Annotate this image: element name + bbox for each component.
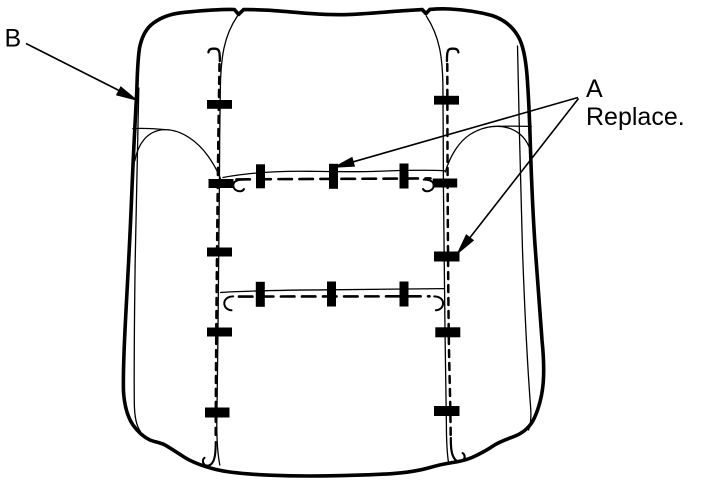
svg-text:B: B [5,24,22,52]
clip A right seam 3 [434,252,460,262]
right shoulder tangent line [498,125,532,127]
upper row right hook [423,180,434,192]
clip A lower row 1 [256,282,265,307]
upper horizontal tie-down dashed line [237,178,431,179]
lower row right hook [434,296,443,310]
lower horizontal seam line [221,289,444,293]
upper row left hook [233,180,244,192]
lower row left hook [224,296,233,310]
clip A left seam 1 [207,100,232,109]
clip A lower row 3 [400,282,409,307]
left listing hook (top) [208,49,219,61]
clip A upper row 3 [400,164,409,189]
left bottom J-hook [203,442,216,466]
upper horizontal seam line [223,170,445,177]
clip A right seam 4 [435,327,460,337]
leader arrow A to right seam clip [458,99,579,254]
right vertical seam line [426,16,448,464]
clip A left seam 2 (junction) [209,179,234,188]
clip A right seam 2 (junction) [433,179,458,188]
right vertical tie-down dashed line [447,64,450,437]
svg-text:Replace.: Replace. [586,103,685,131]
clip A left seam 4 [207,328,232,337]
clip A right seam 1 [434,96,459,105]
left shoulder bolster arc [135,130,223,186]
clip A upper row 2 [329,164,338,189]
left shoulder tangent line [133,128,166,129]
svg-text:A: A [586,75,603,103]
left vertical seam line [217,16,238,465]
seat back outer outline [123,9,543,476]
inner seam line along right edge [518,46,531,430]
left vertical tie-down dashed line [216,64,220,440]
right shoulder bolster arc [445,126,531,172]
clip A upper row 1 [256,164,265,188]
inner seam line along left edge [134,88,140,432]
clip A left seam 3 [207,248,232,257]
clip A left seam 5 [205,408,230,418]
leader arrow B [26,44,137,101]
right bottom J-hook [451,438,465,462]
clip A right seam 5 [434,406,460,416]
leader arrow A to upper row clip [334,98,578,168]
lower horizontal tie-down dashed line [239,295,430,298]
clip A lower row 2 [327,282,336,307]
right listing hook (top) [447,49,458,61]
